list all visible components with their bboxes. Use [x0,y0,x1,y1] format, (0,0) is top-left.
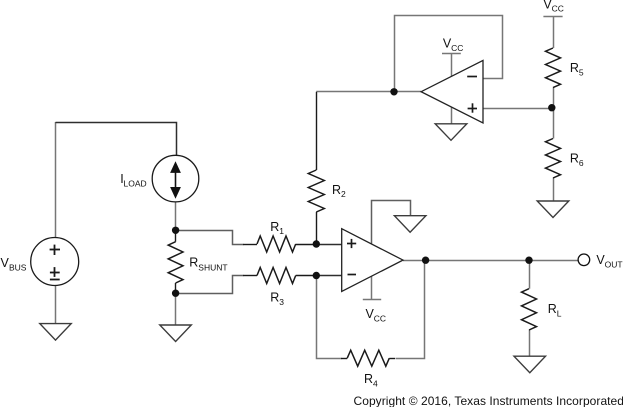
svg-text:6: 6 [579,158,584,168]
svg-text:SHUNT: SHUNT [198,262,227,272]
svg-text:R: R [189,256,198,270]
svg-text:R: R [270,220,279,234]
svg-text:L: L [557,308,562,318]
svg-text:R: R [570,61,579,75]
svg-text:4: 4 [373,378,378,388]
svg-text:R: R [270,291,279,305]
svg-text:2: 2 [341,189,346,199]
svg-text:R: R [332,183,341,197]
svg-text:5: 5 [579,67,584,77]
svg-text:Copyright © 2016, Texas Instru: Copyright © 2016, Texas Instruments Inco… [354,394,623,407]
svg-text:LOAD: LOAD [124,179,147,189]
svg-text:OUT: OUT [605,260,623,270]
svg-text:CC: CC [552,4,564,14]
svg-text:R: R [364,372,373,386]
svg-text:CC: CC [451,43,463,53]
svg-text:3: 3 [279,297,284,307]
svg-text:CC: CC [374,313,386,323]
svg-text:1: 1 [279,226,284,236]
svg-text:R: R [570,152,579,166]
svg-text:BUS: BUS [9,262,27,272]
svg-text:R: R [548,302,557,316]
